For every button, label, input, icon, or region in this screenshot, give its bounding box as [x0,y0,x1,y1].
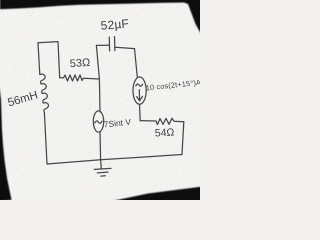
current source I1 circle [133,77,146,104]
inductor L1 56mH coil [40,74,48,112]
dark photo edge: bottom-right wedge [112,187,201,201]
wire current-source bottom [139,104,142,120]
wire capacitor-left vertical [96,45,99,79]
wire left upper vertical [38,43,40,75]
current source sine mark [136,84,143,86]
wire bottom [47,155,182,165]
wire left lower vertical [44,113,47,165]
capacitor left wire [96,44,109,46]
resistor R2 54ohm [140,118,184,124]
current source arrow [137,90,143,101]
wire left middle vertical [58,42,60,78]
paper background [0,0,200,200]
svg-text:54Ω: 54Ω [155,126,175,139]
dark photo edge: bottom-left wedge [0,84,12,201]
voltage source sine mark [95,121,102,123]
voltage source V1 circle [93,111,103,132]
wire current-source top vertical [135,49,138,78]
wire voltage-source bottom [99,132,102,160]
resistor R1 53ohm [60,75,100,81]
ground [94,160,111,176]
wire right vertical [182,122,184,155]
svg-text:53Ω: 53Ω [69,57,90,70]
wire top-left horizontal [38,42,58,43]
svg-text:52µF: 52µF [100,16,130,32]
dark photo edge: top band + top-right wedge [0,0,201,34]
capacitor C1 plates [109,37,115,51]
capacitor right wire [115,47,135,48]
paper speckle noise [0,0,200,200]
wire junction-A to voltage source [98,79,101,112]
